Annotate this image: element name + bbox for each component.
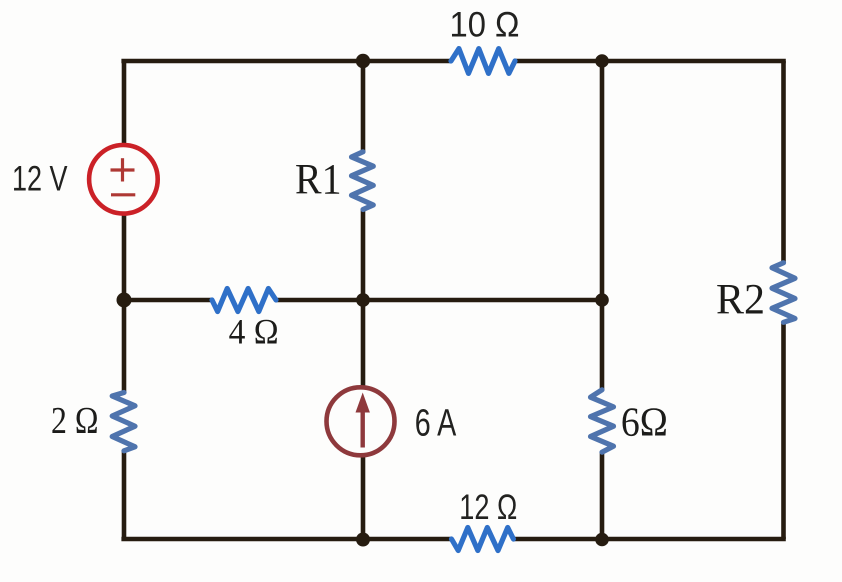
svg-text:4 Ω: 4 Ω [229, 311, 279, 351]
svg-text:R2: R2 [716, 277, 765, 324]
svg-text:12 V: 12 V [12, 159, 68, 198]
svg-text:10 Ω: 10 Ω [450, 6, 520, 45]
svg-text:6 A: 6 A [415, 403, 457, 445]
svg-text:12 Ω: 12 Ω [459, 488, 517, 527]
svg-text:R1: R1 [295, 157, 342, 204]
svg-text:2 Ω: 2 Ω [51, 400, 99, 442]
svg-text:6Ω: 6Ω [621, 398, 668, 444]
